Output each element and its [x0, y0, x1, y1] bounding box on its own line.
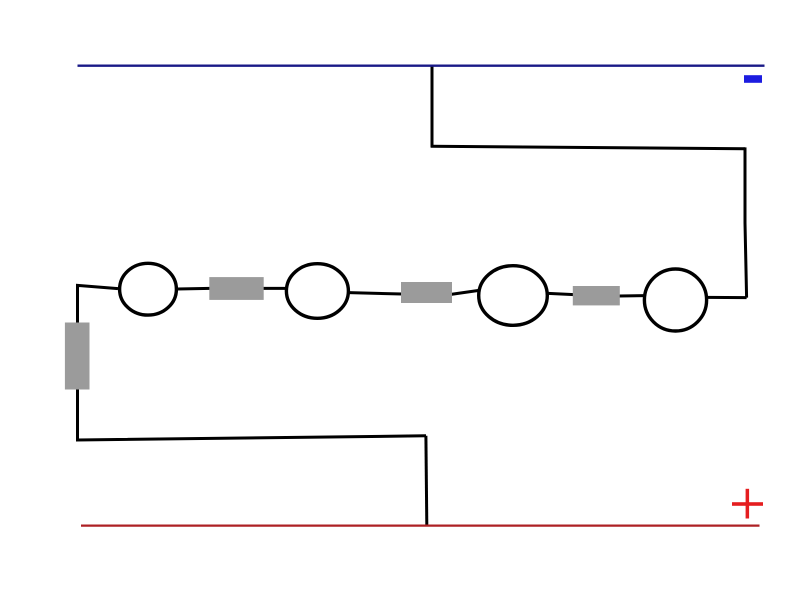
wire resistor 1 to lamp 1	[177, 287, 210, 291]
wire lamp 1 to left corner	[78, 285, 119, 325]
lamp 3	[479, 266, 548, 326]
wire resistor 2 to lamp 2	[349, 293, 402, 294]
negative terminal label -	[744, 75, 762, 83]
wire from negative bus down	[431, 65, 434, 147]
lamp 4	[644, 269, 706, 331]
positive terminal label +	[732, 489, 763, 519]
wire lamp 3 to resistor 2	[451, 290, 479, 294]
wire lamp 4 to resistor 3	[619, 294, 645, 297]
resistor 2	[401, 282, 452, 303]
wire resistor 3 to lamp 3	[548, 293, 574, 294]
lamp 2	[286, 264, 348, 319]
resistor 4 (vertical)	[65, 323, 90, 390]
resistor 3	[573, 286, 620, 305]
lamp 1	[120, 263, 177, 315]
wire lamp 2 to resistor 1	[263, 287, 286, 290]
wire down to positive bus	[424, 436, 428, 525]
wire right vertical run	[745, 147, 747, 297]
wire into lamp 4 right side	[706, 296, 747, 299]
wire upper horizontal run	[431, 146, 745, 149]
resistor 1	[209, 277, 263, 300]
negative bus (blue line)	[78, 65, 765, 67]
positive bus (red line)	[81, 524, 760, 526]
wire left vertical below resistor 4	[78, 388, 427, 440]
